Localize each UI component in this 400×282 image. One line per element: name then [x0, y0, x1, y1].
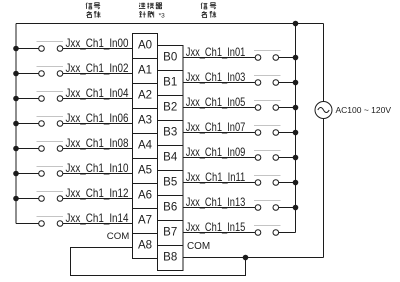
wire: left bus to switch S0 (row In00) — [16, 48, 39, 50]
wire: switch S8 to pin A4 — [63, 148, 133, 150]
switch S7 — [254, 126, 280, 136]
wire: switch S9 to right bus — [279, 157, 296, 159]
svg-text:Jxx_Ch1_In03: Jxx_Ch1_In03 — [186, 70, 246, 84]
wire: pin B2 to switch S5 (row In05) — [183, 107, 255, 109]
node: left bus junction row In10 — [13, 171, 19, 177]
svg-text:Jxx_Ch1_In12: Jxx_Ch1_In12 — [66, 186, 129, 200]
svg-text:B4: B4 — [163, 152, 178, 164]
svg-text:Jxx_Ch1_In05: Jxx_Ch1_In05 — [186, 95, 246, 109]
wire: left bus to switch S8 (row In08) — [16, 148, 39, 150]
connector pin B5 — [158, 171, 184, 196]
svg-text:B5: B5 — [163, 177, 177, 189]
wire: left vertical bus — [15, 24, 17, 224]
svg-text:A6: A6 — [138, 190, 152, 202]
svg-text:B3: B3 — [163, 127, 177, 139]
svg-text:A4: A4 — [138, 140, 153, 152]
switch S10 — [37, 167, 64, 177]
connector pin A8 — [133, 234, 158, 259]
switch S15 — [254, 226, 280, 236]
switch S13 — [254, 201, 280, 211]
wire: switch S13 to right bus — [279, 207, 296, 209]
wire: pin B6 to switch S13 (row In13) — [183, 207, 255, 209]
switch S0 — [37, 42, 64, 52]
svg-text:Jxx_Ch1_In08: Jxx_Ch1_In08 — [66, 136, 129, 150]
connector pin B2 — [158, 96, 184, 121]
wire: switch S12 to pin A6 — [63, 198, 133, 200]
connector pin A5 — [133, 159, 158, 184]
switch S3 — [254, 76, 280, 86]
wire: switch S0 to pin A0 — [63, 48, 133, 50]
label: COM (B8) — [187, 240, 210, 252]
node: right bus junction row In01 — [293, 55, 299, 61]
node: right bus junction row In07 — [293, 130, 299, 136]
wire: switch S6 to pin A3 — [63, 123, 133, 125]
label: AC100 ~ 120V — [336, 105, 392, 115]
svg-text:Jxx_Ch1_In02: Jxx_Ch1_In02 — [66, 61, 129, 75]
wire: pin B7 to switch S15 (row In15) — [183, 232, 255, 234]
AC source PS1 — [315, 102, 332, 119]
switch S14 — [37, 217, 64, 227]
wire: switch S5 to right bus — [279, 107, 296, 109]
header: signal name (right column) — [201, 3, 216, 18]
connector pin B8 — [158, 246, 184, 271]
svg-text:B6: B6 — [163, 202, 177, 214]
label: Jxx_Ch1_In06 — [66, 111, 129, 125]
wire: switch S10 to pin A5 — [63, 173, 133, 175]
svg-text:A7: A7 — [138, 215, 152, 227]
switch S9 — [254, 151, 280, 161]
svg-text:Jxx_Ch1_In15: Jxx_Ch1_In15 — [186, 220, 246, 234]
svg-text:Jxx_Ch1_In00: Jxx_Ch1_In00 — [66, 36, 129, 50]
svg-text:B2: B2 — [163, 102, 177, 114]
label: Jxx_Ch1_In02 — [66, 61, 129, 75]
wire: pin B8 COM to AC supply — [183, 257, 324, 259]
switch S4 — [37, 92, 64, 102]
wire: pin A8 COM return loop — [71, 248, 246, 276]
switch S11 — [254, 176, 280, 186]
svg-text:Jxx_Ch1_In10: Jxx_Ch1_In10 — [66, 161, 129, 175]
node: COM junction — [243, 255, 249, 261]
wire: left bus to switch S6 (row In06) — [16, 123, 39, 125]
node: right bus junction row In13 — [293, 205, 299, 211]
node: left bus junction row In12 — [13, 196, 19, 202]
label: Jxx_Ch1_In11 — [186, 170, 246, 184]
svg-text:A0: A0 — [138, 40, 152, 52]
header: connector pins *3 — [139, 3, 165, 20]
wire: switch S4 to pin A2 — [63, 98, 133, 100]
connector pin A4 — [133, 134, 158, 159]
node: left bus junction row In06 — [13, 121, 19, 127]
svg-text:B7: B7 — [163, 227, 177, 239]
svg-text:A3: A3 — [138, 115, 152, 127]
connector pin B4 — [158, 146, 184, 171]
wire: AC supply line (lower) — [323, 119, 325, 258]
wire: switch S14 to pin A7 — [63, 223, 133, 225]
switch S2 — [37, 67, 64, 77]
label: Jxx_Ch1_In01 — [186, 45, 246, 59]
svg-text:B0: B0 — [163, 52, 177, 64]
switch S8 — [37, 142, 64, 152]
label: Jxx_Ch1_In09 — [186, 145, 246, 159]
connector pin A6 — [133, 184, 158, 209]
switch S6 — [37, 117, 64, 127]
wire: switch S7 to right bus — [279, 132, 296, 134]
connector pin A0 — [133, 34, 158, 59]
wire: left bus to switch S10 (row In10) — [16, 173, 39, 175]
wire: switch S1 to right bus — [279, 57, 296, 59]
wire: pin B1 to switch S3 (row In03) — [183, 82, 255, 84]
connector pin B3 — [158, 121, 184, 146]
node: left bus junction row In00 — [13, 46, 19, 52]
connector pin B7 — [158, 221, 184, 246]
wire: switch S2 to pin A1 — [63, 73, 133, 75]
node: left bus junction row In08 — [13, 146, 19, 152]
connector pin A7 — [133, 209, 158, 234]
connector pin B1 — [158, 71, 184, 96]
wire: left bus to switch S12 (row In12) — [16, 198, 39, 200]
label: Jxx_Ch1_In13 — [186, 195, 246, 209]
svg-text:*3: *3 — [159, 12, 166, 19]
wire: left bus to switch S2 (row In02) — [16, 73, 39, 75]
wire: left bus to switch S14 (row In14) — [16, 223, 39, 225]
wire: AC supply line (upper) — [323, 24, 325, 102]
header: signal name (left column) — [86, 3, 101, 18]
wire: right vertical bus — [295, 24, 297, 233]
wire: switch S3 to right bus — [279, 82, 296, 84]
svg-text:Jxx_Ch1_In06: Jxx_Ch1_In06 — [66, 111, 129, 125]
wire: pin B0 to switch S1 (row In01) — [183, 57, 255, 59]
svg-text:Jxx_Ch1_In11: Jxx_Ch1_In11 — [186, 170, 246, 184]
switch S1 — [254, 51, 280, 61]
svg-text:Jxx_Ch1_In14: Jxx_Ch1_In14 — [66, 211, 129, 225]
svg-text:Jxx_Ch1_In13: Jxx_Ch1_In13 — [186, 195, 246, 209]
node: left bus junction row In02 — [13, 71, 19, 77]
svg-text:B1: B1 — [163, 77, 177, 89]
svg-text:A1: A1 — [138, 65, 152, 77]
label: Jxx_Ch1_In15 — [186, 220, 246, 234]
node: right bus junction row In11 — [293, 180, 299, 186]
wire: left bus to switch S4 (row In04) — [16, 98, 39, 100]
wire: switch S15 to right bus — [279, 232, 296, 234]
label: Jxx_Ch1_In00 — [66, 36, 129, 50]
svg-text:Jxx_Ch1_In04: Jxx_Ch1_In04 — [66, 86, 129, 100]
node: right bus junction row In09 — [293, 155, 299, 161]
node: right bus joins top bus — [293, 21, 299, 27]
node: right bus junction row In03 — [293, 80, 299, 86]
label: Jxx_Ch1_In05 — [186, 95, 246, 109]
svg-text:Jxx_Ch1_In09: Jxx_Ch1_In09 — [186, 145, 246, 159]
wire: pin B5 to switch S11 (row In11) — [183, 182, 255, 184]
label: Jxx_Ch1_In12 — [66, 186, 129, 200]
label: Jxx_Ch1_In08 — [66, 136, 129, 150]
node: right bus junction row In05 — [293, 105, 299, 111]
connector pin B0 — [158, 46, 184, 71]
label: COM (A8) — [107, 231, 130, 242]
svg-text:A8: A8 — [138, 240, 152, 252]
wire: pin B3 to switch S7 (row In07) — [183, 132, 255, 134]
connector pin A1 — [133, 59, 158, 84]
svg-text:A2: A2 — [138, 90, 152, 102]
label: Jxx_Ch1_In10 — [66, 161, 129, 175]
svg-text:Jxx_Ch1_In01: Jxx_Ch1_In01 — [186, 45, 246, 59]
connector pin B6 — [158, 196, 184, 221]
wire: pin B4 to switch S9 (row In09) — [183, 157, 255, 159]
switch S5 — [254, 101, 280, 111]
svg-text:COM: COM — [187, 240, 210, 252]
svg-text:COM: COM — [107, 231, 130, 242]
switch S12 — [37, 192, 64, 202]
node: left bus junction row In04 — [13, 96, 19, 102]
label: Jxx_Ch1_In04 — [66, 86, 129, 100]
svg-text:B8: B8 — [163, 252, 177, 264]
label: Jxx_Ch1_In03 — [186, 70, 246, 84]
connector pin A2 — [133, 84, 158, 109]
connector pin A3 — [133, 109, 158, 134]
wire: switch S11 to right bus — [279, 182, 296, 184]
label: Jxx_Ch1_In14 — [66, 211, 129, 225]
svg-text:AC100 ~ 120V: AC100 ~ 120V — [336, 105, 392, 115]
svg-text:A5: A5 — [138, 165, 152, 177]
svg-text:Jxx_Ch1_In07: Jxx_Ch1_In07 — [186, 120, 246, 134]
wire: top horizontal bus — [16, 23, 324, 25]
label: Jxx_Ch1_In07 — [186, 120, 246, 134]
